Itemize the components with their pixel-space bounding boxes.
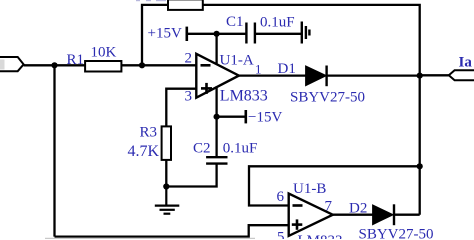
wire feedback top-right and right rail down — [203, 5, 420, 215]
wire U1-B output to D2 — [333, 214, 373, 216]
svg-text:D2: D2 — [349, 201, 367, 217]
diode D2 — [373, 205, 393, 224]
capacitor C1 — [246, 23, 255, 44]
wire feedback up-left — [142, 5, 168, 65]
svg-text:1: 1 — [255, 62, 262, 77]
output connector Ia — [449, 70, 474, 80]
svg-text:R3: R3 — [140, 125, 158, 141]
svg-text:0.1uF: 0.1uF — [223, 141, 258, 157]
wire input to node A — [24, 64, 55, 66]
svg-text:−15V: −15V — [248, 110, 282, 126]
svg-text:6: 6 — [277, 189, 285, 205]
svg-text:2: 2 — [185, 51, 193, 67]
svg-text:7: 7 — [325, 199, 333, 215]
wire C2 bottom to ground node — [166, 164, 216, 187]
svg-text:D1: D1 — [278, 61, 296, 77]
wire R3 to ground node — [165, 160, 167, 187]
svg-text:U1-B: U1-B — [293, 181, 326, 197]
svg-text:R1: R1 — [67, 52, 85, 68]
wire node down to U1-A V+ — [215, 34, 217, 66]
svg-text:C2: C2 — [193, 141, 211, 157]
svg-text:5: 5 — [277, 230, 285, 240]
svg-text:0.1uF: 0.1uF — [260, 14, 295, 30]
label fragment (cropped text above R2) — [136, 0, 166, 1]
input connector P1 — [0, 57, 24, 71]
U1-B minus sign — [293, 204, 303, 207]
svg-text:3: 3 — [185, 89, 193, 105]
op-amp U1-B — [289, 194, 333, 236]
node -15V junction dot — [214, 114, 220, 120]
wire U1-A V- down to node — [215, 86, 217, 116]
svg-text:C1: C1 — [226, 14, 244, 30]
wire C1 to chassis ground — [255, 33, 302, 35]
svg-text:SBYV27-50: SBYV27-50 — [290, 90, 365, 106]
node B junction dot (feedback tap) — [139, 62, 145, 68]
resistor R1 — [85, 61, 121, 72]
wire to Ia connector — [420, 74, 449, 76]
svg-text:SBYV27-50: SBYV27-50 — [359, 227, 434, 239]
-15V supply bar — [245, 110, 248, 123]
wire U1-B feedback loop — [249, 166, 420, 205]
wire node down to C2 — [215, 117, 217, 157]
wire left rail down — [53, 65, 55, 236]
svg-text:LM833: LM833 — [298, 233, 343, 239]
wire R1 to U1-A pin2 — [121, 64, 196, 66]
wire U1-A output to D1 — [239, 74, 306, 76]
ground symbol — [155, 187, 180, 214]
U1-A plus sign — [201, 83, 212, 94]
diode D1 — [306, 66, 326, 85]
wire D1 to right rail — [327, 74, 420, 76]
svg-text:LM833: LM833 — [220, 88, 268, 105]
svg-text:U1-A: U1-A — [220, 53, 254, 69]
node C1 junction dot — [214, 31, 220, 37]
wire D2 to right rail — [394, 214, 420, 216]
resistor R3 — [162, 126, 171, 159]
svg-text:4.7K: 4.7K — [128, 143, 160, 160]
wire node to -15V bar — [217, 116, 246, 118]
node output junction dot — [417, 73, 423, 79]
node A junction dot — [51, 62, 57, 68]
wire bottom rail to U1-B pin5 — [55, 225, 290, 236]
wire node A to R1 — [55, 64, 86, 66]
wire +15V to C1 — [187, 33, 246, 35]
U1-A minus sign — [201, 64, 211, 67]
svg-text:+15V: +15V — [148, 26, 182, 42]
+15V supply bar — [186, 27, 189, 41]
ground node junction dot — [163, 183, 169, 189]
op-amp U1-A — [196, 54, 239, 98]
bottom edge shading — [45, 237, 255, 239]
node feedback2 junction dot — [417, 163, 423, 169]
resistor R2 (top, cropped) — [168, 0, 203, 10]
chassis ground (sideways) — [302, 22, 310, 44]
U1-B plus sign — [292, 219, 303, 229]
svg-text:10K: 10K — [91, 45, 117, 61]
wire U1-A pin3 to R3 — [166, 89, 196, 127]
capacitor C2 — [206, 157, 227, 163]
svg-text:Ia: Ia — [459, 55, 473, 71]
